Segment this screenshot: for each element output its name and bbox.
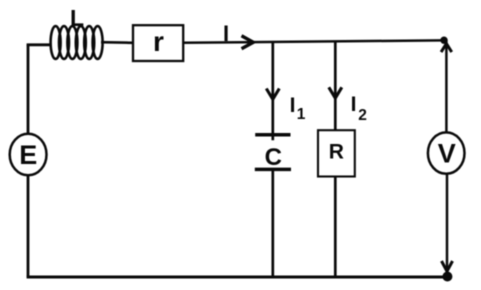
wire capacitor branch vertical (top) (271, 41, 274, 140)
label I2 (351, 93, 367, 124)
resistor R (318, 130, 355, 176)
wire resistor r to node A (top wire) (183, 40, 441, 42)
svg-text:R: R (329, 141, 344, 164)
wire left vertical (E branch) (27, 45, 30, 277)
svg-text:E: E (19, 140, 37, 170)
svg-text:r: r (153, 26, 164, 57)
current arrow I (242, 36, 254, 49)
wire right vertical (voltmeter branch, top) (445, 40, 448, 132)
inductor L (51, 26, 103, 59)
current arrow up into node A (441, 44, 452, 53)
wire top-left horizontal to inductor (27, 43, 51, 46)
svg-text:2: 2 (358, 107, 367, 124)
svg-text:I: I (223, 21, 229, 46)
current arrow I1 (266, 89, 279, 100)
wire right vertical (voltmeter branch, bottom) (446, 174, 449, 272)
svg-text:1: 1 (297, 106, 306, 123)
svg-text:I: I (351, 93, 357, 116)
label I1 (290, 94, 306, 123)
svg-text:C: C (265, 144, 282, 171)
svg-text:I: I (290, 94, 296, 117)
node A (top-right junction dot) (440, 37, 447, 44)
source E (10, 134, 47, 176)
current arrow I2 (329, 87, 342, 98)
capacitor C (255, 135, 291, 172)
wire bottom horizontal (27, 275, 448, 278)
wire capacitor to bottom wire (271, 169, 274, 277)
current arrow down into node B (442, 261, 453, 271)
svg-text:L: L (70, 5, 84, 31)
resistor r (133, 25, 183, 61)
node B (bottom-right junction dot) (442, 272, 452, 282)
wire inductor to resistor r (101, 41, 133, 44)
wire resistor R branch vertical (top) (334, 41, 337, 130)
wire resistor R to bottom wire (334, 177, 337, 278)
voltmeter V (428, 132, 465, 173)
svg-text:V: V (438, 138, 456, 168)
